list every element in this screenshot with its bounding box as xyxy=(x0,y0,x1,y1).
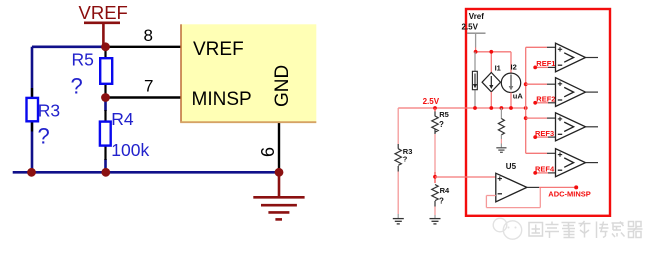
svg-text:Vref: Vref xyxy=(469,12,484,21)
svg-text:VREF: VREF xyxy=(193,39,244,60)
label 2.5V (top) xyxy=(462,23,479,32)
svg-text:?: ? xyxy=(403,154,408,163)
value 100k xyxy=(111,140,149,160)
ground symbol (left schematic) xyxy=(253,172,304,219)
wire: REF4 minus stub xyxy=(533,171,555,175)
red enclosure box xyxy=(466,9,610,216)
wire: plus bus (vertical) xyxy=(525,47,527,153)
wire: REF1 minus stub xyxy=(533,66,555,70)
svg-text:7: 7 xyxy=(144,77,153,96)
power bar symbol (top) xyxy=(467,33,486,52)
svg-text:REF2: REF2 xyxy=(536,95,555,104)
value ? (ladder R5) xyxy=(439,120,444,129)
internal ground symbol xyxy=(496,148,506,153)
svg-text:U5: U5 xyxy=(506,162,517,171)
resistor R5 (ladder zigzag) xyxy=(432,116,438,132)
junction node pin7 xyxy=(101,93,110,102)
svg-text:I1: I1 xyxy=(495,64,501,73)
label R4 (ladder) xyxy=(440,186,450,195)
IC pin name VREF xyxy=(193,39,244,60)
label uA xyxy=(513,92,524,101)
wire: REF1 plus input xyxy=(526,46,556,48)
wire: U5 output xyxy=(527,185,578,189)
net label REF4 xyxy=(535,165,555,174)
感 xyxy=(612,222,624,224)
resistor R4 xyxy=(100,110,111,160)
器 xyxy=(629,222,634,227)
op-amp REF4 xyxy=(556,149,599,177)
junction node R4/GND net xyxy=(101,168,110,177)
wire: REF2 minus stub xyxy=(533,101,555,105)
internal resistor to ground xyxy=(498,108,504,148)
svg-text:VREF: VREF xyxy=(79,2,128,23)
svg-text:GND: GND xyxy=(272,65,293,107)
svg-text:R3: R3 xyxy=(38,100,60,120)
sense resistor (boxed, inside) xyxy=(472,52,477,108)
junction dot R5/R4 midpoint xyxy=(433,175,437,179)
label 2.5V (ladder) xyxy=(423,97,440,106)
junction dot top rail xyxy=(474,50,493,54)
net label REF1 xyxy=(536,59,555,68)
label I2 xyxy=(511,63,517,72)
watermark text 国产霍尔传感器 (drawn strokes) xyxy=(529,221,643,238)
ground symbol (ladder R4) xyxy=(430,219,441,224)
junction dots on rail xyxy=(433,106,527,110)
label R3 xyxy=(38,100,60,120)
wire: R3 branch vertical (ladder) xyxy=(397,108,399,218)
wire: navy stub node7 to R4 xyxy=(104,98,107,112)
ground symbol (ladder R3) xyxy=(393,219,404,224)
霍 xyxy=(562,222,576,224)
svg-text:ADC-MINSP: ADC-MINSP xyxy=(548,189,591,198)
svg-text:uA: uA xyxy=(513,92,524,101)
pin number 8 xyxy=(144,26,153,45)
junction node R3/GND net xyxy=(27,168,36,177)
IC pin name GND (rotated) xyxy=(272,65,293,107)
svg-text:?: ? xyxy=(439,197,444,206)
wire: REF3 minus stub xyxy=(533,135,555,139)
label R4 xyxy=(111,109,134,129)
wire: main 2.5V rail (y=108) xyxy=(398,107,526,109)
wire: left vertical branch to R3 xyxy=(31,47,34,173)
国 xyxy=(529,223,543,237)
svg-text:R5: R5 xyxy=(439,110,449,119)
label R5 (ladder) xyxy=(439,110,449,119)
wire: R5/R4 chain vertical (ladder) xyxy=(434,108,436,218)
label R5 xyxy=(72,49,94,69)
net label REF3 xyxy=(535,129,554,138)
IC block U1 xyxy=(180,24,316,122)
wire: top horizontal from left branch to VREF node xyxy=(32,45,106,48)
value ? (R5) xyxy=(71,73,83,98)
watermark logo (two light circles) xyxy=(493,218,522,239)
wire: pin 7 (black) xyxy=(106,96,182,98)
svg-text:?: ? xyxy=(439,120,444,129)
wire: U5 feedback loop xyxy=(486,187,540,207)
wire: REF4 plus input xyxy=(526,152,556,154)
resistor R5 xyxy=(100,50,112,95)
svg-text:2.5V: 2.5V xyxy=(423,97,440,106)
value ? (ladder R4) xyxy=(439,197,444,206)
svg-text:REF4: REF4 xyxy=(535,165,555,174)
svg-text:I2: I2 xyxy=(511,63,517,72)
wire: REF3 plus input xyxy=(526,117,556,119)
svg-text:MINSP: MINSP xyxy=(192,89,252,110)
传 xyxy=(596,222,598,239)
value ? (R3) xyxy=(38,123,50,148)
wire: U5 plus input from divider xyxy=(435,176,496,178)
wire: pin 6 (black vertical) xyxy=(278,123,280,172)
current source I2 (circle) xyxy=(501,73,520,108)
label I1 xyxy=(495,64,501,73)
label Vref (top) xyxy=(469,12,484,21)
label R3 (ladder) xyxy=(403,147,413,156)
svg-text:2.5V: 2.5V xyxy=(462,23,479,32)
wire: bottom GND net (navy) xyxy=(13,171,279,174)
svg-text:R4: R4 xyxy=(111,109,134,129)
op-amp REF1 xyxy=(556,43,599,72)
label U5 xyxy=(506,162,517,171)
label VREF (power net) xyxy=(79,2,128,23)
resistor R3 (ladder zigzag) xyxy=(395,149,401,166)
op-amp REF2 xyxy=(556,78,599,107)
junction node VREF/pin8 xyxy=(101,42,110,51)
junction dots on plus bus xyxy=(524,82,528,120)
wire: top rail 2.5V to sources (red) xyxy=(475,52,511,74)
svg-text:100k: 100k xyxy=(111,140,149,160)
wire: navy stub R4 bottom to GND net xyxy=(104,159,107,172)
op-amp U5 xyxy=(496,173,527,202)
power symbol VREF xyxy=(84,23,120,46)
svg-text:?: ? xyxy=(38,123,50,148)
svg-text:6: 6 xyxy=(258,147,278,157)
svg-text:?: ? xyxy=(71,73,83,98)
op-amp REF3 xyxy=(556,113,599,141)
pin number 7 xyxy=(144,77,153,96)
resistor R3 xyxy=(27,88,39,132)
IC pin name MINSP xyxy=(192,89,252,110)
产 xyxy=(546,224,559,226)
svg-text:REF3: REF3 xyxy=(535,129,554,138)
net label ADC-MINSP xyxy=(548,189,591,198)
wire: REF2 plus input xyxy=(526,83,556,85)
尔 xyxy=(579,223,591,225)
net label REF2 xyxy=(536,95,555,104)
svg-text:REF1: REF1 xyxy=(536,59,555,68)
svg-text:8: 8 xyxy=(144,26,153,45)
value ? (ladder R3) xyxy=(403,154,408,163)
pin number 6 xyxy=(258,147,278,157)
junction node pin6/GND net xyxy=(275,168,284,177)
svg-text:R5: R5 xyxy=(72,49,94,69)
svg-text:R4: R4 xyxy=(440,186,450,195)
current source I1 (diamond) xyxy=(482,73,500,109)
wire: pin 8 (black) xyxy=(106,46,182,48)
resistor R4 (ladder zigzag) xyxy=(432,185,438,201)
